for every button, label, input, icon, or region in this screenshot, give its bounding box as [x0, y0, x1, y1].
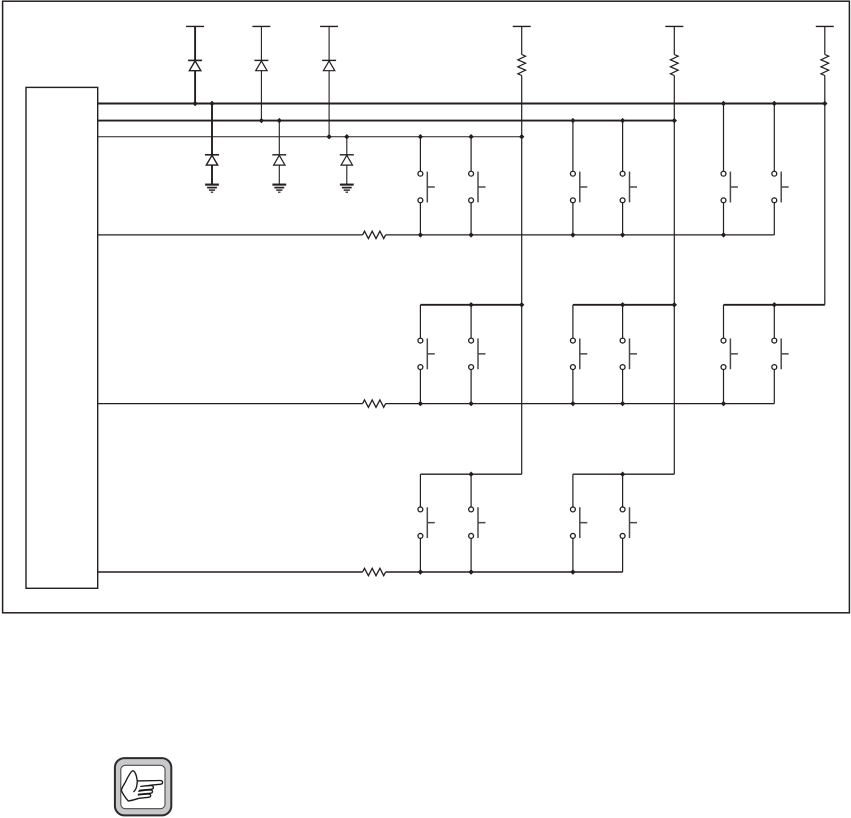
switch SW8 (momentary pushbutton): [469, 338, 486, 369]
diode D2 (clamp to supply): [254, 60, 268, 70]
junction: D4 / COL1: [209, 101, 214, 106]
junction: R1 column / COL3 end: [519, 134, 524, 139]
diode D6 (clamp to ground): [340, 155, 354, 165]
diode D1 (clamp to supply): [188, 60, 202, 70]
wire: diode D2 anode to bus line 2: [260, 71, 262, 121]
junction: SW6 top / COL bus: [772, 101, 777, 106]
wire: row 2 group header C (SW11/SW12 tops to R3 column): [724, 304, 825, 306]
power rail tap for resistor R2: [665, 25, 683, 27]
wire: row 3 group header A (SW13/SW14 tops to R1 column): [420, 473, 521, 475]
diode D5 (clamp to ground): [272, 155, 286, 165]
series resistor R6 (row 3): [363, 568, 386, 575]
wire: SW10 top lead: [622, 305, 624, 338]
wire: power tap to resistor R1: [521, 26, 523, 54]
wire: bus line 1 to diode D4 cathode: [211, 104, 213, 155]
switch SW16 (momentary pushbutton): [620, 507, 637, 538]
power rail tap for diode D1: [186, 25, 204, 27]
wire: row 2 group header B (SW9/SW10 tops to R2 column): [573, 304, 674, 306]
switch SW12 (momentary pushbutton): [772, 338, 789, 369]
junction: SW5 top / COL bus: [721, 101, 726, 106]
wire: SW8 top lead: [470, 305, 472, 338]
wire: SW16 bottom lead: [622, 538, 624, 572]
wire: power tap to resistor R2: [673, 26, 675, 54]
pull-up resistor R2: [670, 55, 678, 76]
switch SW4 (momentary pushbutton): [620, 171, 637, 203]
pull-up resistor R1: [518, 55, 526, 76]
wire: SW16 top lead: [622, 474, 624, 507]
wire: SW5 bottom lead: [723, 203, 725, 235]
switch SW6 (momentary pushbutton): [772, 171, 789, 203]
junction on row 3 header B: [620, 472, 625, 477]
diode D4 (clamp to ground): [205, 155, 219, 165]
wire: SW4 bottom lead: [622, 203, 624, 235]
pull-up resistor R3: [821, 55, 829, 76]
wire: SW11 top lead: [723, 305, 725, 338]
junction: D5 / COL2: [277, 118, 282, 123]
ground symbol GND3: [340, 185, 354, 193]
wire: SW15 top lead: [572, 474, 574, 507]
junction: D1 / COL1: [192, 101, 197, 106]
ground symbol GND2: [272, 185, 286, 193]
note icon: rounded square with manicule (pointing hand): [112, 756, 176, 818]
wire: row 2 return line (left segment from connector): [98, 403, 363, 405]
wire: SW1 bottom lead: [419, 203, 421, 235]
power rail tap for diode D3: [320, 25, 338, 27]
wire: SW13 bottom lead: [419, 538, 421, 572]
wire: diode D6 anode to ground: [346, 165, 348, 185]
junction: D6 / COL3: [344, 134, 349, 139]
junction: R2 column / COL2 end: [672, 118, 677, 123]
wire: bus line 2 to diode D5 cathode: [278, 121, 280, 155]
switch SW10 (momentary pushbutton): [620, 338, 637, 369]
wire: SW8 bottom lead: [470, 370, 472, 404]
wire: SW6 bottom lead: [773, 203, 775, 235]
junction: SW3 top / COL bus: [570, 118, 575, 123]
wire: column bus line 1 (net COL1): [98, 103, 825, 105]
wire: column bus line 2 (net COL2): [98, 120, 675, 122]
wire: power tap to diode D2 cathode: [260, 26, 262, 60]
wire: diode D5 anode to ground: [278, 165, 280, 185]
wire: diode D3 anode to bus line 3: [328, 71, 330, 137]
wire: SW7 bottom lead: [419, 370, 421, 404]
junctions on row 2 return line: [418, 401, 727, 406]
wire: bus line 3 to diode D6 cathode: [346, 137, 348, 155]
wire: row 2 return line (right segment): [386, 403, 775, 405]
wire: resistor R3 to switch column (vertical): [824, 76, 826, 305]
wire: column bus line 3 (net COL3): [98, 136, 522, 138]
switch SW3 (momentary pushbutton): [570, 171, 587, 203]
power rail tap for diode D2: [252, 25, 270, 27]
wire: SW1 top lead: [419, 137, 421, 172]
diode D3 (clamp to supply): [322, 60, 336, 70]
wire: row 3 return line (right segment): [386, 571, 623, 573]
wire: power tap to diode D1 cathode: [194, 26, 196, 60]
wire: row 3 return line (left segment from connector): [98, 571, 363, 573]
wire: row 2 group header A (SW7/SW8 tops to R1 column): [420, 304, 521, 306]
junction on row 3 header A: [468, 472, 473, 477]
wire: row 1 return line (right segment): [386, 234, 775, 236]
wire: SW9 top lead: [572, 305, 574, 338]
wire: SW5 top lead: [723, 104, 725, 172]
wire: SW4 top lead: [622, 121, 624, 172]
switch SW14 (momentary pushbutton): [469, 507, 486, 538]
switch SW1 (momentary pushbutton): [418, 171, 435, 203]
wire: SW3 bottom lead: [572, 203, 574, 235]
series resistor R4 (row 1): [363, 231, 386, 238]
junctions on row 1 return line: [418, 232, 727, 237]
wire: SW15 bottom lead: [572, 538, 574, 572]
junction: SW4 top / COL bus: [620, 118, 625, 123]
wire: SW2 bottom lead: [470, 203, 472, 235]
wire: SW12 bottom lead: [773, 370, 775, 404]
series resistor R5 (row 2): [363, 400, 386, 407]
wire: power tap to resistor R3: [824, 26, 826, 54]
wire: SW7 top lead: [419, 305, 421, 338]
power rail tap for resistor R3: [816, 25, 834, 27]
junctions on row 2 header A: [468, 302, 524, 307]
junctions on row 3 return line: [418, 569, 576, 574]
wire: SW14 top lead: [470, 474, 472, 507]
wire: SW3 top lead: [572, 121, 574, 172]
connector box U1 (keyboard controller): [26, 87, 98, 588]
switch SW9 (momentary pushbutton): [570, 338, 587, 369]
wire: SW6 top lead: [773, 104, 775, 172]
wire: SW13 top lead: [419, 474, 421, 507]
junctions on row 2 header B: [620, 302, 677, 307]
wire: SW14 bottom lead: [470, 538, 472, 572]
switch SW7 (momentary pushbutton): [418, 338, 435, 369]
wire: resistor R1 to switch column (vertical): [521, 76, 523, 475]
switch SW15 (momentary pushbutton): [570, 507, 587, 538]
switch SW13 (momentary pushbutton): [418, 507, 435, 538]
wire: row 1 return line (left segment from connector): [98, 234, 363, 236]
wire: row 3 group header B (SW15/SW16 tops to R2 column): [573, 473, 674, 475]
wire: power tap to diode D3 cathode: [328, 26, 330, 60]
switch SW2 (momentary pushbutton): [469, 171, 486, 203]
wire: SW12 top lead: [773, 305, 775, 338]
wire: diode D1 anode to bus line 1: [194, 71, 196, 104]
switch SW11 (momentary pushbutton): [721, 338, 738, 369]
wire: SW9 bottom lead: [572, 370, 574, 404]
junction on row 2 header C: [772, 302, 777, 307]
junction: D3 / COL3: [326, 134, 331, 139]
wire: diode D4 anode to ground: [211, 165, 213, 185]
junction: D2 / COL2: [259, 118, 264, 123]
wire: resistor R2 to switch column (vertical): [673, 76, 675, 475]
power rail tap for resistor R1: [513, 25, 531, 27]
wire: SW2 top lead: [470, 137, 472, 172]
wire: SW11 bottom lead: [723, 370, 725, 404]
junction: SW1 top / COL bus: [418, 134, 423, 139]
ground symbol GND1: [205, 185, 219, 193]
junction: SW2 top / COL bus: [468, 134, 473, 139]
junction: R3 column / COL1 end: [822, 101, 827, 106]
wire: SW10 bottom lead: [622, 370, 624, 404]
switch SW5 (momentary pushbutton): [721, 171, 738, 203]
schematic frame (border): [3, 1, 850, 613]
